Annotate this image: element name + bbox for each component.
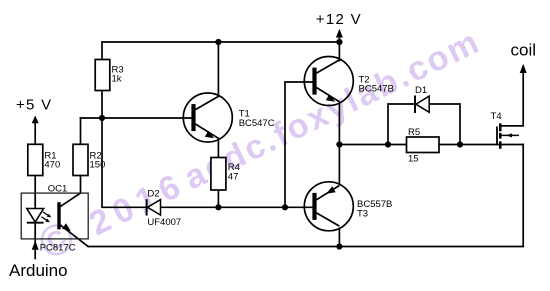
wire T3 collector bbox=[338, 229, 340, 247]
wire R1 to LED bbox=[34, 176, 36, 209]
wire T2 base bbox=[285, 82, 313, 207]
junction node D1 right bbox=[457, 141, 463, 147]
wire D2 to T3 base bbox=[161, 206, 313, 208]
junction node T2 base leg bbox=[282, 204, 288, 210]
transistor T3 BC557B bbox=[304, 182, 392, 231]
wire opto collector bbox=[60, 176, 80, 207]
svg-text:+12 V: +12 V bbox=[316, 11, 362, 28]
svg-text:UF4007: UF4007 bbox=[147, 217, 181, 228]
wire D1 left leg bbox=[388, 104, 414, 145]
svg-text:R5: R5 bbox=[408, 127, 420, 138]
svg-text:BC547B: BC547B bbox=[359, 84, 394, 95]
svg-text:coil: coil bbox=[511, 41, 537, 60]
svg-text:T3: T3 bbox=[357, 208, 368, 219]
optocoupler OC1 PC817C bbox=[21, 183, 88, 253]
wire R2 top lead bbox=[80, 118, 82, 144]
junction node +12V bbox=[336, 39, 342, 45]
wire bottom rail bbox=[88, 145, 523, 247]
junction node R3/T1 base bbox=[99, 115, 105, 121]
wire T2 emitter bbox=[338, 102, 340, 145]
transistor T2 BC547B bbox=[304, 57, 394, 106]
resistor R2 bbox=[73, 144, 105, 175]
arduino arrow bbox=[9, 241, 68, 281]
+12V supply arrow bbox=[316, 11, 362, 37]
mosfet T4 bbox=[491, 111, 524, 149]
coil arrow bbox=[511, 41, 537, 73]
wire base line T1 bbox=[81, 117, 192, 119]
wire R3 top lead bbox=[101, 42, 103, 60]
watermark bbox=[31, 15, 487, 269]
resistor R1 bbox=[28, 144, 60, 175]
wire D1 right leg bbox=[429, 104, 460, 145]
wire R3 bottom lead bbox=[101, 91, 103, 119]
+5V supply arrow bbox=[16, 97, 52, 124]
phototransistor of OC1 bbox=[57, 202, 71, 231]
junction node T1 collector bbox=[215, 39, 221, 45]
svg-text:47: 47 bbox=[228, 172, 239, 183]
wire +12V stem bbox=[338, 34, 340, 43]
svg-text:D2: D2 bbox=[147, 189, 159, 200]
junction node T3 collector bbox=[336, 243, 342, 249]
svg-text:1k: 1k bbox=[112, 73, 122, 84]
svg-text:OC1: OC1 bbox=[48, 183, 68, 194]
svg-text:470: 470 bbox=[44, 160, 60, 171]
wire node to D2 bbox=[102, 118, 146, 207]
wire coil lead bbox=[501, 70, 523, 126]
wire T2 collector bbox=[338, 42, 340, 61]
svg-text:+5 V: +5 V bbox=[16, 97, 52, 114]
diode D2 UF4007 bbox=[147, 189, 182, 229]
transistor T1 BC547C bbox=[183, 93, 274, 142]
junction node T2 emitter bbox=[336, 141, 342, 147]
wire R5 right to T4 source bbox=[439, 144, 523, 146]
diode D1 bbox=[415, 85, 429, 113]
svg-text:T4: T4 bbox=[491, 111, 502, 122]
resistor R4 bbox=[211, 158, 240, 191]
wire T1 emitter to R4 bbox=[217, 138, 219, 157]
wire T1 collector bbox=[217, 42, 219, 96]
resistor R3 bbox=[95, 60, 123, 91]
svg-text:150: 150 bbox=[90, 160, 106, 171]
svg-text:PC817C: PC817C bbox=[40, 243, 76, 254]
wire T3 emitter bbox=[338, 145, 340, 185]
wire +5V stem bbox=[34, 121, 36, 144]
junction node D1 left bbox=[385, 141, 391, 147]
svg-text:D1: D1 bbox=[415, 85, 427, 96]
wire rail to R5 bbox=[339, 144, 406, 146]
junction node R4 bottom bbox=[215, 204, 221, 210]
wire opto emitter bbox=[60, 225, 88, 247]
svg-text:BC547C: BC547C bbox=[239, 118, 275, 129]
wire LED cathode to arduino bbox=[34, 223, 36, 259]
resistor R5 bbox=[407, 127, 440, 165]
svg-text:Arduino: Arduino bbox=[9, 261, 68, 280]
LED of OC1 bbox=[27, 209, 52, 223]
wire R4 bottom lead bbox=[217, 190, 219, 207]
wire top rail bbox=[102, 41, 339, 43]
svg-text:15: 15 bbox=[408, 154, 419, 165]
